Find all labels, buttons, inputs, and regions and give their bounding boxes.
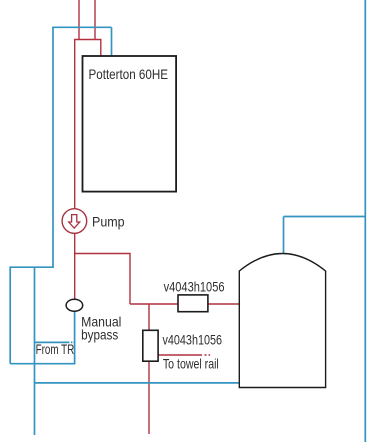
- wire: red below valve V2 to bottom: [148, 361, 150, 434]
- wire: cyan cylinder vent vertical: [283, 217, 285, 255]
- hot water cylinder: [239, 254, 325, 388]
- wire: red towel rail stub with dotted end: [158, 354, 202, 356]
- wire: red flow pipe from top (left): [78, 0, 80, 40]
- wire: red horizontal to valve V1: [130, 303, 179, 305]
- wire: cyan bottom-left horizontal: [10, 363, 75, 365]
- wire: cyan top horizontal: [53, 26, 112, 28]
- wire: cyan from bypass valve down: [74, 311, 76, 364]
- wire: cyan mid-left vertical to bottom: [34, 267, 36, 435]
- wire: red branch horizontal below pump: [75, 253, 130, 255]
- wire: red drop to valve V2: [148, 304, 150, 331]
- valve V2 v4043h1056 (vertical): [143, 330, 158, 361]
- wire: red down to pump: [74, 40, 76, 210]
- boiler Potterton 60HE: [83, 56, 177, 192]
- svg-text:From TR: From TR: [36, 341, 75, 357]
- wire: cyan far-left vertical: [9, 267, 11, 364]
- wire: cyan From-TR stub with dotted end: [35, 341, 70, 343]
- wire: red return pipe from top (right): [94, 0, 96, 40]
- svg-text:To towel rail: To towel rail: [163, 356, 219, 372]
- wire: red manifold horizontal: [74, 39, 102, 41]
- svg-text:v4043h1056: v4043h1056: [164, 278, 225, 294]
- wire: cyan left riser: [52, 27, 54, 268]
- wire: red branch drop: [129, 253, 131, 304]
- svg-text:bypass: bypass: [81, 327, 118, 343]
- wire: red drop into boiler top: [100, 40, 102, 57]
- wire: cyan jog horizontal: [10, 266, 54, 268]
- pump P1: [62, 209, 87, 234]
- wire: cyan long bottom horizontal to cylinder: [35, 382, 240, 384]
- svg-text:Potterton 60HE: Potterton 60HE: [89, 66, 169, 82]
- svg-text:v4043h1056: v4043h1056: [163, 331, 223, 347]
- wire: red valve V1 to cylinder: [208, 303, 240, 305]
- manual bypass valve: [66, 299, 83, 311]
- wire: red pump to bypass valve: [74, 233, 76, 300]
- wire: cyan right riser full height: [364, 0, 366, 442]
- valve V1 v4043h1056 (horizontal): [178, 295, 208, 312]
- wire: cyan vent horizontal to right riser: [284, 216, 366, 218]
- svg-text:Pump: Pump: [92, 214, 125, 230]
- wire: cyan drop into boiler top: [111, 27, 113, 56]
